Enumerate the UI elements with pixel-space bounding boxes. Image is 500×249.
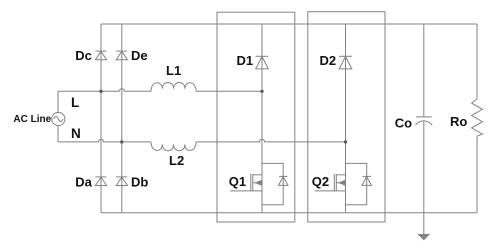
svg-text:AC Line: AC Line xyxy=(13,114,51,125)
svg-text:L: L xyxy=(71,95,79,110)
svg-text:L2: L2 xyxy=(169,153,184,168)
svg-text:D2: D2 xyxy=(320,53,337,68)
svg-text:Dc: Dc xyxy=(75,48,92,63)
svg-text:De: De xyxy=(131,48,148,63)
svg-text:Q1: Q1 xyxy=(229,174,246,189)
svg-text:N: N xyxy=(71,126,81,141)
svg-text:L1: L1 xyxy=(166,63,181,78)
svg-text:Co: Co xyxy=(395,116,412,131)
svg-text:Ro: Ro xyxy=(450,114,467,129)
svg-text:Db: Db xyxy=(131,175,148,190)
svg-text:Da: Da xyxy=(75,175,92,190)
svg-text:D1: D1 xyxy=(237,53,254,68)
svg-text:Q2: Q2 xyxy=(312,174,329,189)
